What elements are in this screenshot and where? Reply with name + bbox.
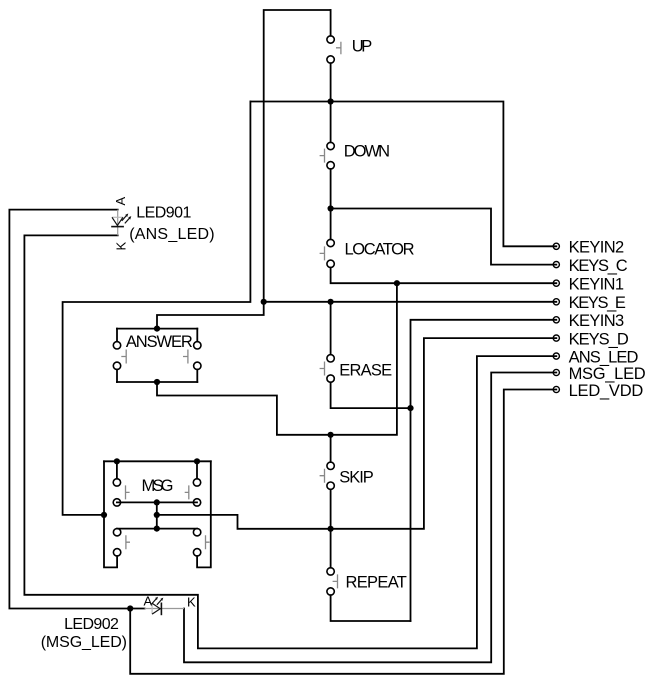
- junction KEYIN1 branch: [394, 280, 400, 286]
- terminal KEYIN1: [553, 280, 559, 286]
- wire UP bottom stub: [330, 63, 332, 101]
- junction ANSWER top rail: [154, 326, 160, 332]
- wire MSG mid rail upper: [117, 501, 197, 503]
- junction SKIP bottom / KEYS_D: [328, 526, 334, 532]
- actuator switch ANSWER-2: [183, 350, 188, 364]
- svg-text:DOWN: DOWN: [344, 142, 390, 160]
- svg-text:LED901: LED901: [136, 204, 191, 221]
- LED LED901 (ANS_LED): [111, 210, 131, 236]
- svg-text:ERASE: ERASE: [339, 362, 392, 380]
- svg-text:K: K: [114, 242, 129, 251]
- terminal KEYIN2: [553, 243, 559, 249]
- junction SKIP top: [328, 432, 334, 438]
- wire LED901 cathode stub: [24, 234, 117, 236]
- terminal KEYS_E: [553, 299, 559, 305]
- wire MSG center tap: [156, 502, 158, 528]
- wire MSG top rail: [104, 460, 211, 462]
- terminal MSG_LED: [553, 369, 559, 375]
- switch UP contact circles: [327, 36, 334, 43]
- junction LED902 anode / LED_VDD: [127, 605, 133, 611]
- junction MSG mid rail upper: [154, 499, 160, 505]
- svg-text:SKIP: SKIP: [339, 469, 374, 487]
- terminal KEYS_C: [553, 262, 559, 268]
- wire top rail from UP top to left drop: [264, 10, 331, 302]
- svg-text:ANSWER: ANSWER: [126, 333, 193, 351]
- svg-text:K: K: [187, 595, 196, 610]
- svg-text:MSG: MSG: [142, 477, 174, 495]
- junction KEYS_E left node: [261, 299, 267, 305]
- wire MSG upper-right stub: [196, 461, 198, 478]
- wire ANS_LED rail from LED901 cathode: [24, 235, 556, 648]
- wire ANSWER bottom rail: [117, 381, 197, 383]
- wire KEYS_C rail: [331, 209, 557, 265]
- wire KEYIN1 branch to ANSWER bottom and SKIP top: [157, 283, 397, 435]
- svg-text:LED_VDD: LED_VDD: [569, 382, 644, 400]
- wire MSG upper-left stub: [116, 461, 118, 478]
- actuator switch MSG-3: [126, 535, 130, 549]
- svg-text:REPEAT: REPEAT: [346, 574, 407, 592]
- junction MSG top rail left: [114, 458, 120, 464]
- svg-text:A: A: [113, 197, 128, 206]
- wire REPEAT bottom: [331, 595, 411, 621]
- junction ERASE bottom / KEYIN3: [407, 405, 413, 411]
- wire REPEAT top stub: [330, 529, 332, 568]
- junction UP bottom / KEYIN2: [328, 98, 334, 104]
- wire SKIP top stub: [330, 435, 332, 462]
- switch REPEAT contact circles: [327, 568, 334, 575]
- junction MSG center tap: [154, 512, 160, 518]
- wire ANSWER right bottom stub: [196, 370, 198, 383]
- wire ANSWER right top stub: [196, 329, 198, 342]
- switch MSG-3 contact circles: [113, 529, 120, 536]
- wire SKIP bottom stub: [330, 489, 332, 528]
- wire LED_VDD rail: [130, 390, 556, 674]
- actuator switch LOCATOR: [320, 246, 325, 260]
- svg-text:KEYIN1: KEYIN1: [569, 276, 624, 294]
- svg-text:KEYIN2: KEYIN2: [569, 239, 625, 257]
- wire ANSWER top feed: [157, 302, 264, 329]
- junction MSG mid rail lower: [154, 526, 160, 532]
- svg-text:A: A: [144, 594, 153, 609]
- wire ANSWER left top stub: [116, 329, 118, 342]
- svg-text:ANS_LED: ANS_LED: [569, 349, 639, 367]
- actuator switch REPEAT: [333, 574, 338, 588]
- junction MSG top rail right: [194, 458, 200, 464]
- terminal KEYIN3: [553, 317, 559, 323]
- svg-text:(MSG_LED): (MSG_LED): [41, 634, 127, 651]
- switch ANSWER-1 contact circles: [113, 342, 120, 349]
- wire MSG mid rail lower: [117, 528, 197, 530]
- actuator switch ERASE: [320, 362, 325, 376]
- wire ANSWER top rail: [117, 328, 197, 330]
- terminal LED_VDD: [553, 386, 559, 392]
- actuator switch SKIP: [320, 469, 325, 483]
- wire DOWN bottom stub: [330, 169, 332, 209]
- wire LED901 anode rail: [9, 210, 130, 609]
- switch ERASE contact circles: [327, 355, 334, 362]
- actuator switch DOWN: [320, 149, 325, 163]
- wire MSG outline right with foot: [197, 461, 211, 567]
- svg-text:KEYIN3: KEYIN3: [569, 312, 625, 330]
- svg-text:LED902: LED902: [64, 616, 119, 633]
- wire KEYIN3 rail: [411, 320, 557, 621]
- switch ANSWER-2 contact circles: [194, 342, 201, 349]
- wire KEYIN2 rail: [250, 102, 556, 247]
- wire ERASE top stub: [330, 302, 332, 355]
- junction MSG left outline tap: [101, 512, 107, 518]
- terminal KEYS_D: [553, 335, 559, 341]
- svg-text:KEYS_C: KEYS_C: [569, 257, 628, 275]
- actuator switch ANSWER-1: [121, 350, 126, 364]
- actuator switch UP: [336, 42, 341, 54]
- wire KEYS_D rail from MSG common: [157, 338, 557, 529]
- wire KEYS_E rail: [264, 301, 557, 303]
- svg-text:UP: UP: [352, 38, 373, 56]
- wire MSG outline left with foot: [104, 461, 117, 567]
- wire ANSWER left bottom stub: [116, 370, 118, 383]
- junction ERASE top: [328, 299, 334, 305]
- switch SKIP contact circles: [327, 462, 334, 469]
- switch LOCATOR contact circles: [327, 239, 334, 246]
- wire DOWN top stub: [330, 102, 332, 143]
- wire LED902 anode stub: [130, 608, 144, 610]
- svg-text:MSG_LED: MSG_LED: [569, 365, 646, 383]
- switch MSG-4 contact circles: [193, 529, 200, 536]
- wire ERASE bottom: [331, 382, 411, 408]
- switch DOWN contact circles: [327, 142, 334, 149]
- svg-text:KEYS_D: KEYS_D: [569, 331, 629, 349]
- junction ANSWER bottom rail: [154, 379, 160, 385]
- wire MSG_LED rail from LED902 cathode: [184, 373, 556, 663]
- terminal ANS_LED: [553, 353, 559, 359]
- wire UP top stub: [330, 10, 332, 36]
- svg-text:(ANS_LED): (ANS_LED): [129, 226, 214, 243]
- wire LOCATOR bottom to KEYIN1: [331, 268, 557, 284]
- wire KEYIN2 to MSG left rail: [63, 102, 251, 515]
- switch MSG-2 contact circles: [193, 479, 200, 486]
- LED LED902 (MSG_LED): [145, 597, 184, 615]
- junction DOWN bottom / KEYS_C: [328, 205, 334, 211]
- svg-text:LOCATOR: LOCATOR: [345, 240, 415, 258]
- actuator switch MSG-4: [206, 535, 210, 549]
- actuator switch MSG-1: [126, 485, 130, 499]
- wire LOCATOR top stub: [330, 209, 332, 240]
- switch MSG-1 contact circles: [113, 479, 120, 486]
- svg-text:KEYS_E: KEYS_E: [569, 294, 626, 312]
- actuator switch MSG-2: [185, 485, 189, 499]
